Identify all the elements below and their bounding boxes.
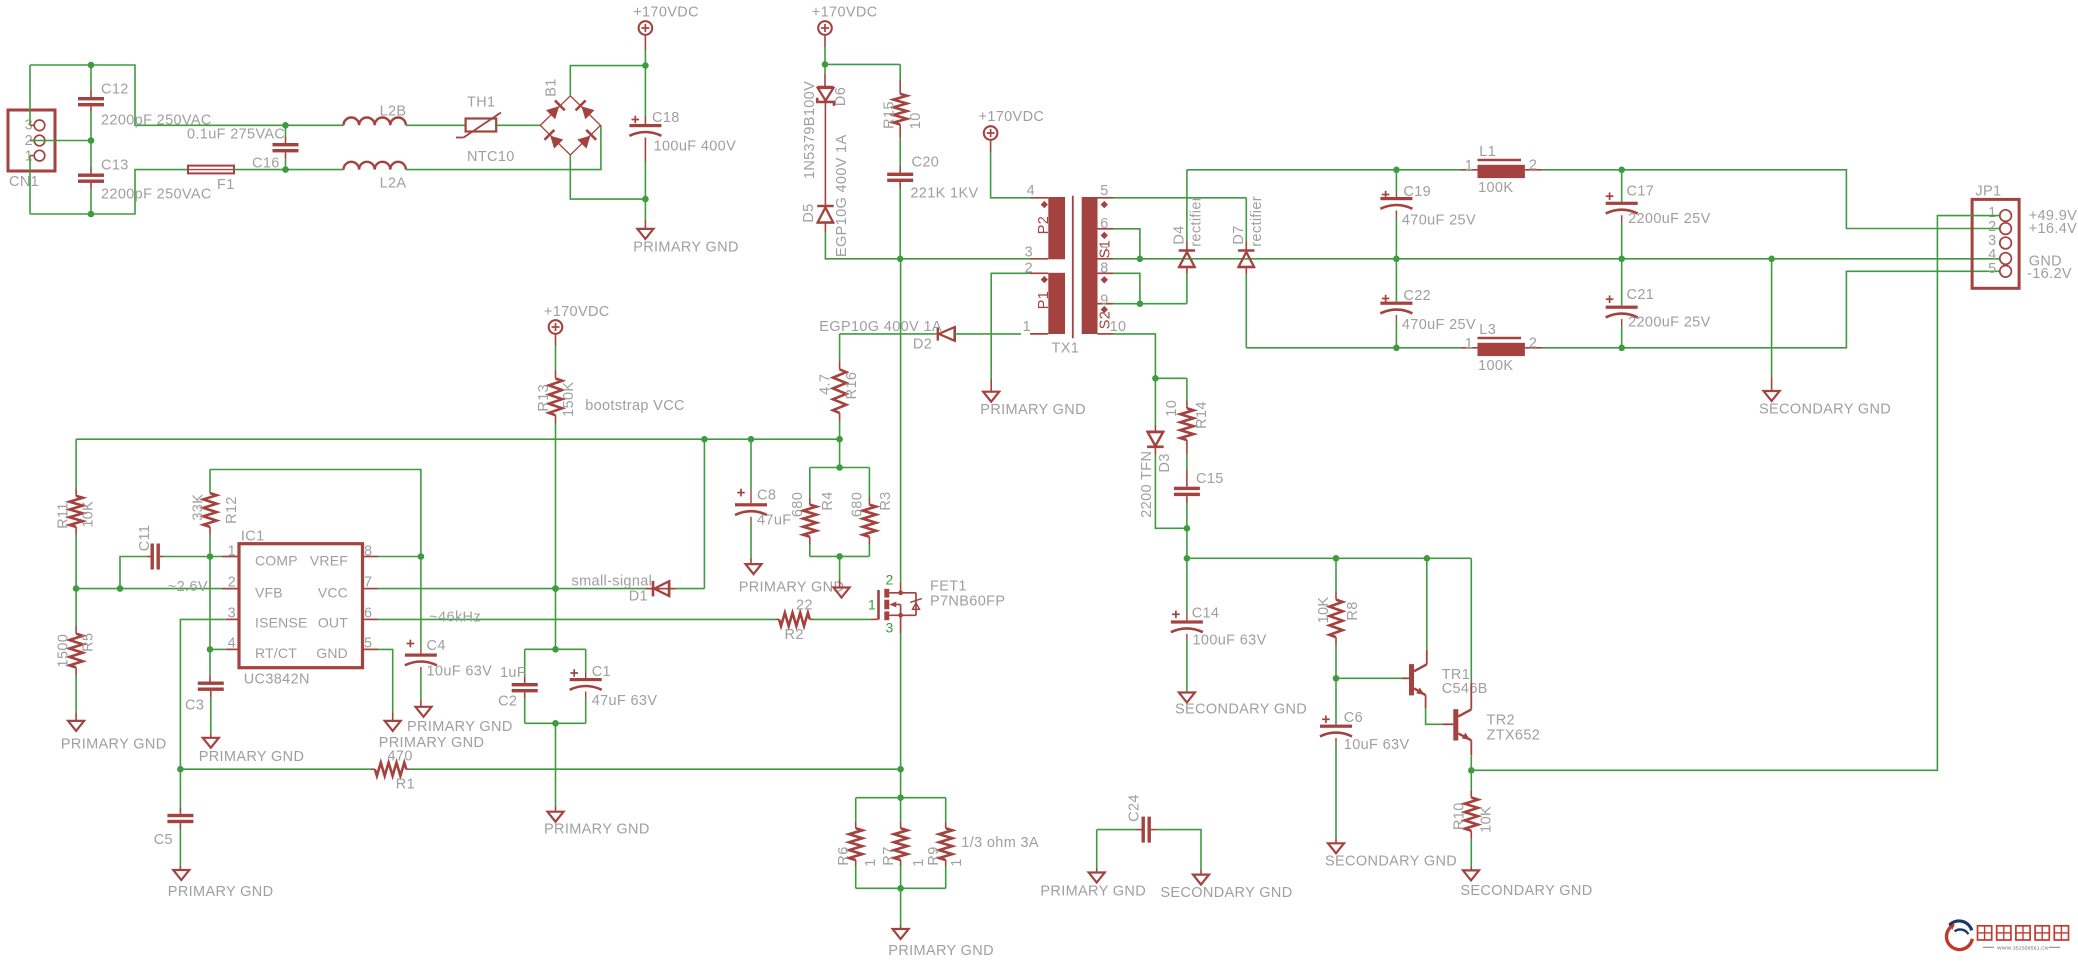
capacitor C20 [887,155,978,259]
resistor R2 [776,598,878,644]
svg-text:D6: D6 [833,87,849,106]
svg-text:PRIMARY GND: PRIMARY GND [633,240,739,256]
wire L2B to TH1 [406,124,466,126]
diode D5 [801,134,850,257]
svg-text:1uF: 1uF [500,665,526,681]
svg-text:D2: D2 [913,337,932,353]
svg-text:47uF: 47uF [757,513,791,529]
fuse F1 [188,166,235,193]
svg-text:10K: 10K [1479,806,1495,833]
junction [701,436,708,443]
svg-text:C8: C8 [757,488,776,504]
svg-text:221K 1KV: 221K 1KV [910,186,978,202]
junction [1618,167,1625,174]
svg-text:TX1: TX1 [1052,341,1080,357]
connector CN1 [8,110,55,190]
svg-text:150K: 150K [561,382,577,417]
svg-text:47uF 63V: 47uF 63V [592,693,658,709]
wire L2A to bridge [406,125,601,169]
junction [1184,525,1191,532]
capacitor C5 [154,769,194,870]
wire VFB line [76,588,239,590]
thermistor TH1 [456,95,515,166]
resistor R4 and R3 parallel [790,439,894,556]
svg-text:1500: 1500 [55,634,71,668]
svg-text:680: 680 [790,492,806,517]
svg-text:EGP10G 400V 1A: EGP10G 400V 1A [819,319,942,335]
svg-text:9: 9 [1100,293,1108,309]
capacitor C17 [1606,170,1711,259]
capacitor C1 [570,649,658,723]
wire FET drain line [900,259,902,593]
svg-text:C18: C18 [652,110,680,126]
wire VREF to R12 top [210,470,421,557]
wire TX pin9 to D4 [1113,303,1187,305]
capacitor C19 [1380,170,1476,259]
svg-text:R11: R11 [55,502,71,529]
svg-text:R4: R4 [820,491,836,510]
svg-text:C6: C6 [1344,710,1363,726]
capacitor C21 [1606,259,1711,348]
junction [282,122,289,129]
svg-text:TR2: TR2 [1487,713,1515,729]
wire VCC feed rail [76,438,840,440]
junction [897,766,904,773]
svg-text:R10: R10 [1451,802,1467,830]
junction [897,794,904,801]
svg-text:C12: C12 [101,82,129,98]
svg-text:R12: R12 [224,496,240,524]
wire secondary gnd rail [1140,258,2000,260]
wire VCC cap branch [555,589,557,650]
junction [836,553,843,560]
svg-text:EGP10G 400V 1A: EGP10G 400V 1A [834,134,850,257]
junction [1393,255,1400,262]
svg-text:R2: R2 [785,627,804,643]
junction [552,585,559,592]
svg-text:L2A: L2A [380,176,407,192]
svg-text:D7: D7 [1231,225,1247,244]
svg-text:100K: 100K [1478,180,1513,196]
inductor L3 [1461,322,1542,374]
junction [836,436,843,443]
net label +49.9V [2029,208,2077,224]
junction [207,553,214,560]
junction [1393,345,1400,352]
svg-text:2: 2 [1025,261,1033,277]
ground PRIMARY GND [739,564,845,595]
svg-text:PRIMARY GND: PRIMARY GND [407,719,513,735]
svg-text:5: 5 [1988,261,1996,277]
svg-text:CN1: CN1 [9,174,39,190]
wire TH1 to bridge [496,124,540,126]
diode D6 zener [802,64,849,179]
svg-text:2: 2 [1529,336,1537,352]
svg-text:C24: C24 [1126,794,1142,822]
svg-text:R15: R15 [882,101,898,129]
svg-text:8: 8 [1100,261,1108,277]
svg-text:S1: S1 [1098,240,1114,258]
wire ISENSE pin3 [180,619,239,769]
svg-text:C20: C20 [912,155,940,171]
op-amp IC1 UC3842N [228,529,373,688]
svg-text:C2: C2 [498,694,517,710]
capacitor C12 [78,65,212,129]
ground SECONDARY GND [1175,693,1307,718]
capacitor C15 [1174,471,1224,528]
wire JP1 pin1 to TR2 emitter [1471,216,1999,771]
inductor L1 [1461,144,1542,196]
svg-text:470: 470 [388,749,413,765]
wire COMP stub [222,556,239,558]
svg-text:C546B: C546B [1442,681,1488,697]
junction [117,585,124,592]
svg-text:SECONDARY GND: SECONDARY GND [1759,402,1891,418]
junction [822,61,829,68]
junction [642,196,649,203]
resistor R16 [818,334,860,439]
svg-text:R8: R8 [1345,601,1361,620]
svg-text:10uF 63V: 10uF 63V [1344,737,1410,753]
wire C2C1 top [525,648,586,650]
junction [1424,555,1431,562]
svg-text:470uF 25V: 470uF 25V [1402,317,1476,333]
svg-text:C1: C1 [592,664,611,680]
resistor R14 [1164,378,1210,486]
svg-text:1: 1 [1023,319,1031,335]
resistor R13 [536,370,577,439]
ground PRIMARY GND [199,738,305,765]
capacitor C16 [187,125,299,171]
wire R13 column down [555,439,557,588]
resistor R9 [926,798,965,889]
svg-text:R16: R16 [844,372,860,400]
svg-text:10uF 63V: 10uF 63V [427,664,493,680]
net label ~2.6V [168,579,208,595]
svg-text:S2: S2 [1098,311,1114,329]
svg-text:small-signal: small-signal [572,574,653,590]
ground SECONDARY GND [1160,875,1292,901]
svg-text:PRIMARY GND: PRIMARY GND [544,822,650,838]
svg-text:RT/CT: RT/CT [255,645,297,661]
svg-text:D1: D1 [629,589,648,605]
svg-text:PRIMARY GND: PRIMARY GND [980,402,1086,418]
ground PRIMARY GND [168,870,274,900]
net label GND [2029,253,2062,269]
svg-text:C21: C21 [1627,287,1655,303]
wire VREF pin8 [363,556,421,558]
svg-text:B1: B1 [544,78,560,96]
junction [1137,300,1144,307]
capacitor C4 [405,557,492,707]
svg-text:SECONDARY GND: SECONDARY GND [1325,854,1457,870]
svg-text:5: 5 [1100,183,1108,199]
svg-text:L2B: L2B [380,104,407,120]
junction [1152,375,1159,382]
svg-text:COMP: COMP [255,553,298,569]
supply +170VDC [979,109,1045,198]
svg-text:C5: C5 [154,832,173,848]
resistor R7 [881,798,927,889]
svg-text:ZTX652: ZTX652 [1487,728,1541,744]
wire AC bottom rail [30,170,188,214]
diode D7 rectifier [1231,196,1265,348]
svg-text:1N5379B100V: 1N5379B100V [802,81,818,179]
svg-text:470uF 25V: 470uF 25V [1402,213,1476,229]
svg-text:P2: P2 [1036,216,1052,234]
junction [88,137,95,144]
junction [1768,255,1775,262]
svg-text:1: 1 [949,858,965,866]
transformer TX1 [1023,183,1127,357]
capacitor C22 [1380,259,1476,348]
diode D2 [819,319,1021,353]
wire R12 column to RT/CT [209,557,211,650]
junction [748,436,755,443]
net label 1/3 ohm 3A [961,835,1039,851]
capacitor C6 [1320,678,1409,843]
resistor R15 [882,64,924,166]
svg-text:1: 1 [911,858,927,866]
svg-text:2200uF 25V: 2200uF 25V [1628,211,1711,227]
svg-text:C13: C13 [101,158,129,174]
wire TX pin6 to pin7 node [1113,229,1140,259]
junction [1333,555,1340,562]
resistor R5 [55,589,96,721]
svg-text:2: 2 [228,575,236,591]
junction [1618,345,1625,352]
wire source to sense network [900,769,902,798]
svg-text:R3: R3 [878,491,894,510]
svg-text:~46kHz: ~46kHz [429,610,481,626]
svg-text:1/3 ohm 3A: 1/3 ohm 3A [961,835,1039,851]
junction [1184,555,1191,562]
ground PRIMARY GND [544,723,650,837]
svg-text:0.1uF 275VAC: 0.1uF 275VAC [187,127,285,143]
svg-text:TH1: TH1 [467,95,495,111]
diode D3 [1139,378,1187,528]
svg-text:UC3842N: UC3842N [244,672,310,688]
supply +170VDC [812,5,878,65]
svg-text:FET1: FET1 [930,579,967,595]
svg-text:VREF: VREF [310,553,348,569]
svg-text:F1: F1 [217,177,235,193]
svg-text:1: 1 [228,543,236,559]
junction [73,585,80,592]
wire -output bottom rail [1246,347,1461,349]
svg-text:R14: R14 [1194,401,1210,429]
junction [1618,255,1625,262]
diode D1 small-signal [572,574,705,605]
svg-text:IC1: IC1 [241,529,265,545]
svg-text:100uF 63V: 100uF 63V [1193,633,1267,649]
svg-text:4.7: 4.7 [818,374,834,395]
wire base-drive rail [1187,557,1471,559]
junction [552,585,559,592]
svg-text:rectifier: rectifier [1249,196,1265,247]
svg-text:1: 1 [863,858,879,866]
svg-text:D3: D3 [1157,453,1173,472]
svg-text:bootstrap VCC: bootstrap VCC [585,398,685,414]
svg-text:VFB: VFB [255,584,283,600]
resistor R11 [55,439,96,588]
svg-text:10: 10 [1164,400,1180,417]
wire C2C1 bottom [525,722,586,724]
junction [552,646,559,653]
svg-text:+16.4V: +16.4V [2029,221,2077,237]
junction [897,255,904,262]
svg-text:10K: 10K [1316,597,1332,624]
resistor R12 [190,470,240,557]
svg-text:22: 22 [796,598,813,614]
wire bridge top to +170 rail [570,66,645,96]
wire RT/CT pin4 [210,648,239,650]
svg-text:C17: C17 [1627,184,1655,200]
transistor FET1 P7NB60FP [868,572,1005,636]
junction [1137,255,1144,262]
svg-text:ISENSE: ISENSE [255,615,308,631]
svg-text:SECONDARY GND: SECONDARY GND [1160,885,1292,901]
ground PRIMARY GND [379,721,485,751]
wire C13 to bottom rail [90,189,92,214]
wire GND pin5 [363,649,393,721]
watermark logo [1946,921,2068,952]
wire TX pin5 to D7 [1113,197,1246,199]
svg-text:C22: C22 [1403,288,1431,304]
svg-text:R1: R1 [396,777,415,793]
svg-text:10: 10 [908,112,924,129]
svg-text:680: 680 [850,492,866,517]
svg-text:PRIMARY GND: PRIMARY GND [61,737,167,753]
wire AC top rail [30,65,344,125]
wire F1 to C16 node [234,169,344,171]
svg-text:2: 2 [886,572,894,588]
net label +16.4V [2029,221,2077,237]
resistor R1 [375,749,901,793]
svg-text:+170VDC: +170VDC [812,5,878,21]
wire C12 to node [90,112,92,141]
wire AC line top from CN1 pin3 [30,65,34,125]
svg-text:R7: R7 [881,846,897,865]
svg-text:~2.6V: ~2.6V [168,579,208,595]
junction [642,62,649,69]
svg-text:C3: C3 [185,698,204,714]
ground PRIMARY GND [633,199,739,255]
wire L1 to JP1 pin2 [1542,170,2000,229]
wire +output top rail [1187,169,1461,171]
svg-text:C15: C15 [1196,471,1224,487]
junction [552,720,559,727]
resistor R10 [1451,770,1494,870]
junction [88,62,95,69]
svg-text:1: 1 [1465,158,1473,174]
capacitor C2 [498,649,538,723]
ground PRIMARY GND [61,721,167,753]
svg-text:R13: R13 [536,384,552,412]
ground PRIMARY GND [1040,830,1146,900]
svg-text:D5: D5 [801,203,817,222]
capacitor C13 [78,141,212,203]
capacitor C14 [1171,558,1267,692]
svg-text:R9: R9 [926,846,942,865]
svg-text:1: 1 [1465,336,1473,352]
svg-text:33K: 33K [190,494,206,521]
transistor TR1 [1336,558,1488,697]
junction [836,464,843,471]
capacitor C3 [185,649,224,737]
ground PRIMARY GND [980,392,1086,418]
svg-text:PRIMARY GND: PRIMARY GND [1040,884,1146,900]
inductor L2B [344,104,407,126]
svg-text:rectifier: rectifier [1189,196,1205,247]
svg-text:+170VDC: +170VDC [633,5,699,21]
svg-text:WWW.352558561.CN: WWW.352558561.CN [1997,946,2049,952]
junction [282,166,289,173]
svg-text:2200pF 250VAC: 2200pF 250VAC [101,187,212,203]
svg-text:C11: C11 [137,525,153,552]
svg-text:R5: R5 [81,633,97,652]
svg-text:2200uF 25V: 2200uF 25V [1628,314,1711,330]
wire D6 to D5 lead [824,102,826,206]
connector JP1 [1972,184,2019,289]
junction [177,766,184,773]
junction [207,646,214,653]
svg-text:3: 3 [886,620,894,636]
svg-text:2200 TFN: 2200 TFN [1139,451,1155,518]
svg-text:C19: C19 [1403,184,1431,200]
junction [1393,167,1400,174]
junction [1468,767,1475,774]
ground PRIMARY GND [407,707,513,735]
svg-text:GND: GND [316,645,348,661]
svg-text:100K: 100K [1478,358,1513,374]
junction [418,553,425,560]
svg-text:C14: C14 [1192,606,1220,622]
supply +170VDC [544,304,610,370]
svg-text:3: 3 [1025,245,1033,261]
wire D5 to pin3 rail [825,223,1030,259]
wire sense line [180,768,375,770]
wire CN1 pin1 down [30,156,34,214]
svg-text:+170VDC: +170VDC [544,304,610,320]
svg-text:NTC10: NTC10 [467,149,515,165]
wire D1 to VCC-feed rail [703,439,705,588]
ground SECONDARY GND [1325,843,1457,869]
wire to C14 node [1186,528,1188,558]
wire TX pin2 to primary gnd [991,273,1030,391]
svg-text:C4: C4 [427,638,446,654]
wire TX pin7 [1113,258,1140,260]
inductor L2A [344,162,407,192]
svg-text:100uF 400V: 100uF 400V [654,139,737,155]
svg-text:+170VDC: +170VDC [979,109,1045,125]
wire CN1 pin2 to C12/C13 node [30,140,91,142]
svg-text:OUT: OUT [318,615,348,631]
svg-text:P7NB60FP: P7NB60FP [930,594,1005,610]
wire FET source down [900,615,902,769]
svg-text:VCC: VCC [318,584,348,600]
transistor TR2 [1453,558,1540,770]
ground SECONDARY GND [1460,870,1592,899]
wire TR1 emitter to TR2 base [1426,695,1454,724]
ground PRIMARY GND [834,556,850,597]
svg-text:SECONDARY GND: SECONDARY GND [1460,883,1592,899]
svg-text:4: 4 [1027,183,1035,199]
net label ~46kHz [429,610,481,626]
wire node to R14 [1155,377,1187,379]
wire TX pin10 down [1113,334,1155,378]
wire +170 to R15 [825,63,900,65]
